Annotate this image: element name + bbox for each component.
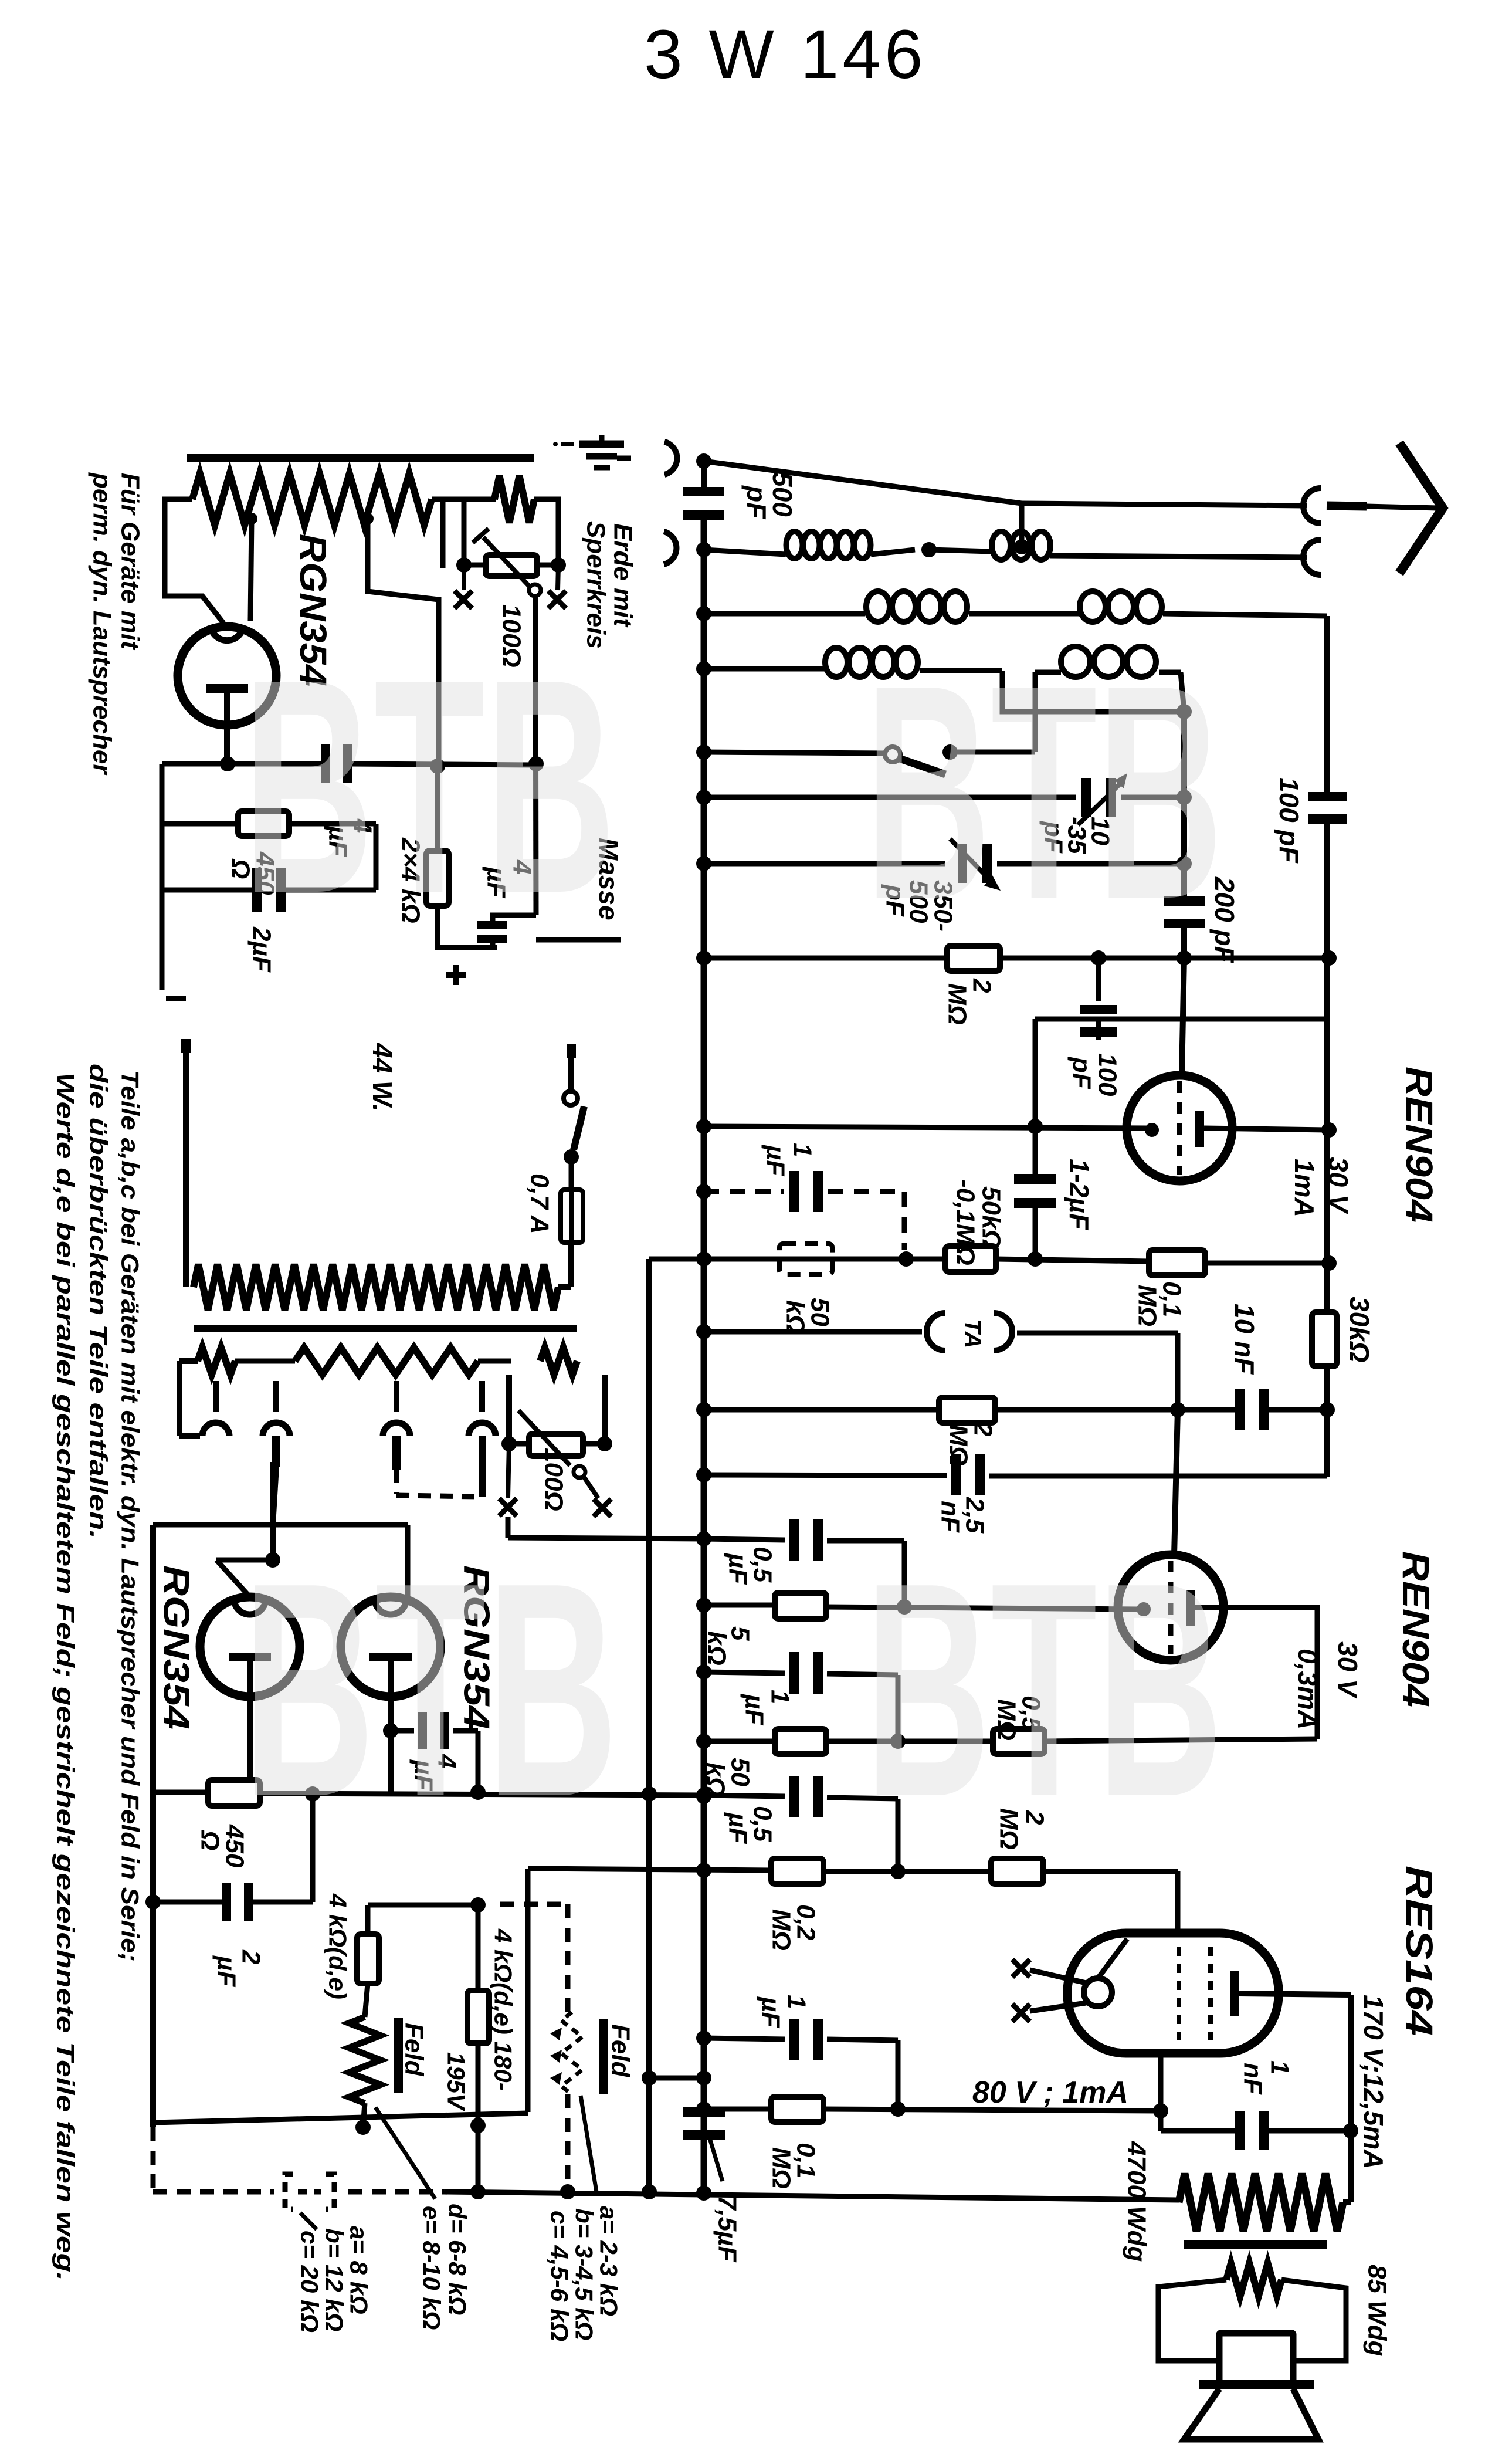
label 500pF (741, 472, 798, 520)
svg-text:1: 1 (788, 1143, 817, 1157)
tube V3 RGN354 (200, 1597, 300, 1697)
wire (row1 left) (162, 756, 323, 771)
capacitor 100pF (on bus B3) (1308, 792, 1347, 824)
label 1uF (dashed) (761, 1143, 817, 1176)
node (bus/coil row 3) (696, 661, 711, 676)
svg-text:a= 8 kΩ: a= 8 kΩ (345, 2226, 373, 2314)
transformer core bar (top-left) (187, 454, 534, 462)
node (bus/coil row 2) (696, 606, 711, 621)
wire (195V branch lower) (470, 2043, 486, 2199)
trimmer capacitor 10-35pF (1078, 773, 1127, 825)
resistor 0.2MOhm (771, 1859, 823, 1884)
svg-text:b= 3-4,5 kΩ: b= 3-4,5 kΩ (571, 2208, 598, 2340)
wire (corner riser x=900) (525, 1869, 531, 2112)
capacitor 1-2uF (1014, 1126, 1056, 1259)
label 0.5uF (724, 1546, 777, 1585)
label 0.1MOhm (2) (767, 2143, 821, 2189)
label 100Ohm (heater) (540, 1448, 568, 1511)
wire bus B3 vertical (1324, 616, 1330, 1477)
transformer core bar (output) (1184, 2240, 1327, 2249)
label 50kOhm-0.1MOhm (951, 1179, 1006, 1265)
svg-text:µF: µF (212, 1955, 241, 1987)
resistor 5kOhm (775, 1593, 826, 1619)
label Feld 2 (599, 2019, 635, 2094)
wire (195V branch) (470, 1905, 486, 2133)
wire (row3 step down) (1002, 671, 1184, 712)
svg-text:REN904: REN904 (1395, 1551, 1437, 1707)
label 0.5uF (2) (724, 1806, 777, 1844)
label 200pF (1209, 876, 1240, 964)
wire (heater mid drop) (265, 1462, 280, 1568)
wire (lower antenna jack to coil L2) (1050, 556, 1307, 557)
antenna symbol arrow (1367, 443, 1443, 573)
tube V6 RES164 (1067, 1933, 1279, 2053)
node (V2 top corner) (649, 1257, 704, 1262)
svg-text:BTB: BTB (865, 1519, 1223, 1860)
label 1nF (1239, 2060, 1294, 2095)
wire (row 2) (704, 614, 1327, 616)
node (bus/B+ row) (696, 1789, 711, 1804)
node (bus/50k2 row) (696, 1734, 711, 1749)
heater tap arc 2 (263, 1381, 290, 1525)
label a b c (left) (296, 2226, 373, 2333)
svg-text:44 W.: 44 W. (367, 1043, 398, 1112)
wire (secondary right lead) (1281, 2280, 1346, 2361)
resistor 2x4kOhm (vertical) (426, 766, 449, 947)
svg-text:µF: µF (724, 1812, 752, 1844)
wire (50k row) (704, 1251, 1337, 1271)
pointer line (7.5uF) (708, 2134, 723, 2181)
pointer line (Feld1 to d,e) (375, 2107, 435, 2199)
node (bus/2M row) (696, 950, 711, 966)
capacitor 500pF (series in bus) (683, 487, 724, 520)
svg-text:kΩ: kΩ (703, 1631, 731, 1666)
wire (V2-B1 link row 3542) (642, 2070, 711, 2086)
jack arc (antenna lower) (1303, 540, 1321, 575)
wire dashed (Feld2 branch) (500, 1904, 575, 2199)
label 2MOhm (3) (995, 1808, 1049, 1850)
capacitor 0.5uF (789, 1519, 823, 1561)
node (bus/2M2 row) (696, 1402, 711, 1417)
svg-text:30kΩ: 30kΩ (1344, 1297, 1375, 1363)
label Werte d e (line3) (52, 1072, 80, 2281)
wire (row1 right) (351, 759, 536, 774)
wire (0.5uF row) (704, 1539, 904, 1605)
wire (RGN left rail) (150, 1525, 156, 2127)
node (bus/TA row) (696, 1324, 711, 1339)
wire (B+ row 3055) (153, 1785, 711, 1803)
label 5kOhm (703, 1626, 755, 1666)
label 100Ohm (top) (497, 604, 526, 668)
svg-text:1: 1 (1266, 2060, 1294, 2074)
svg-text:4 kΩ(d,e): 4 kΩ(d,e) (324, 1893, 352, 1999)
wire (Masse row) (536, 937, 621, 943)
wire (pot right drop) (534, 499, 558, 565)
wire (row1 to coil L2) (929, 550, 991, 551)
svg-text:Feld: Feld (606, 2024, 635, 2078)
label 4kOhm(d,e) 180- (490, 1928, 517, 2091)
jack arc (lower left, Sperrkreis) (664, 532, 676, 564)
label 2uF (top) (247, 926, 276, 973)
mains lead (left) (181, 1039, 191, 1287)
svg-text:1-2µF: 1-2µF (1064, 1159, 1094, 1231)
label 1-2uF (1064, 1159, 1094, 1231)
wire (4k branch top) (368, 1897, 486, 1934)
node (row3 junction) (1177, 704, 1192, 719)
tube V1 REN904 (1127, 1075, 1232, 1181)
wire (row3 2uF) (162, 888, 376, 893)
label 1uF (3) (757, 1995, 811, 2028)
wire (anode RES164) (1239, 1993, 1358, 2202)
switch S1 (wave band) (885, 672, 1061, 774)
transformer core bar (mains) (194, 1325, 577, 1332)
label 30V 1mA (V1) (1289, 1157, 1354, 1217)
wire dashed (bottom row left) (153, 2127, 444, 2192)
svg-text:µF: µF (724, 1552, 752, 1585)
svg-text:1: 1 (766, 1690, 795, 1704)
label 0.7A (525, 1173, 554, 1234)
node (bus/trimmer1 row) (696, 790, 711, 805)
wire (V4 cathode cap row) (391, 1731, 478, 1792)
capacitor 1uF (2) (789, 1652, 823, 1694)
node (bus/dashed row) (696, 1184, 711, 1199)
wire (Masse drop x=914) (528, 596, 544, 915)
resistor 0.1MOhm (2) (771, 2097, 823, 2122)
terminal X (pot top right) (548, 565, 566, 608)
svg-text:85 Wdg: 85 Wdg (1363, 2265, 1392, 2357)
wire (2.5n row) (704, 1475, 1327, 1476)
resistor 450Ohm (RGN) (208, 1780, 260, 1806)
svg-text:e= 8-10 kΩ: e= 8-10 kΩ (418, 2206, 446, 2330)
svg-text:µF: µF (757, 1996, 785, 2028)
svg-text:Für Geräte mit: Für Geräte mit (116, 473, 145, 651)
svg-text:TA: TA (960, 1319, 985, 1348)
terminal X (pot top left) (455, 565, 472, 608)
svg-text:4700 Wdg: 4700 Wdg (1123, 2141, 1151, 2262)
node (coil row 1 junction) (921, 542, 937, 557)
node (bus/coil row 1) (696, 542, 711, 557)
resistor Feld (zigzag) (349, 1984, 381, 2135)
label 44W (367, 1043, 398, 1112)
winding (output secondary) (1226, 2263, 1281, 2296)
svg-text:MΩ: MΩ (767, 2147, 796, 2189)
node (bus/5k row) (696, 1597, 711, 1613)
svg-text:MΩ: MΩ (767, 1909, 796, 1951)
capacitor 200pF (series in grid bus) (1164, 896, 1205, 928)
label Erde mit Sperrkreis (582, 521, 638, 649)
node (bus/2.5n row) (696, 1467, 711, 1483)
terminal minus (166, 996, 186, 1001)
svg-text:170 V;12,5mA: 170 V;12,5mA (1358, 1995, 1389, 2169)
wire (0.5uF row right of B1) (704, 1795, 898, 1869)
label 2MOhm (2) (944, 1421, 998, 1466)
label RGN354 (V3) (156, 1565, 196, 1729)
svg-text:RGN354: RGN354 (156, 1565, 196, 1729)
trimmer capacitor 350-500pF (950, 839, 1001, 891)
node (bus/switch row) (696, 744, 711, 760)
resistor 2MOhm (grid leak 1) (947, 946, 1000, 971)
wire V2 vertical (left feed) (646, 1259, 652, 2192)
label REN904 (V1) (1398, 1067, 1440, 1223)
label 450Ohm (RGN) (196, 1824, 249, 1868)
label 85 Wdg (1363, 2265, 1392, 2357)
wire bus B1 vertical (701, 461, 707, 2192)
label 50kOhm (dashed) (781, 1298, 835, 1335)
coil L3 (866, 591, 967, 622)
coil L4 (1080, 591, 1162, 622)
fuse 0.7A (561, 1190, 583, 1243)
tube V3 filament (229, 1653, 271, 1793)
resistor 4kOhm (d,e) 1 (357, 1934, 379, 1984)
heater tap arc 4 (469, 1381, 496, 1497)
label 10nF (1229, 1304, 1260, 1375)
svg-text:30 V: 30 V (1333, 1641, 1363, 1699)
wire (secondary left elbow) (179, 1361, 200, 1436)
label REN904 (V2) (1395, 1551, 1437, 1707)
svg-text:Ω: Ω (196, 1830, 225, 1850)
wire (pot left drop) (432, 499, 496, 568)
svg-text:-0,1MΩ: -0,1MΩ (951, 1179, 980, 1265)
label 0.2MOhm (767, 1904, 821, 1951)
svg-text:10 nF: 10 nF (1229, 1304, 1260, 1375)
label 170V 12.5mA (1358, 1995, 1389, 2169)
wire (anode V1 to B3) (1204, 1122, 1337, 1138)
wire (primary right riser) (558, 1243, 571, 1287)
wire (plate feedback row 1735) (1035, 1019, 1327, 1126)
label RGN354 (V5) (292, 534, 334, 686)
svg-text:a= 2-3 kΩ: a= 2-3 kΩ (595, 2206, 623, 2316)
tube V5 filament (206, 684, 248, 764)
resistor 50kOhm (dashed bridged) (779, 1244, 832, 1274)
capacitor 4uF (bottom, polarized) (477, 915, 536, 947)
label 1uF (2) (740, 1690, 795, 1725)
switch S2 (mains) (564, 1044, 584, 1190)
winding (pot section) (494, 476, 534, 523)
terminal plus (446, 965, 466, 985)
winding (output primary) (1179, 2174, 1351, 2231)
connector TA (927, 1313, 1012, 1351)
svg-text:7,5µF: 7,5µF (713, 2195, 742, 2263)
svg-text:1: 1 (782, 1995, 811, 2009)
svg-text:100: 100 (1093, 1053, 1122, 1096)
potentiometer 100Ohm (top) (456, 529, 566, 596)
svg-text:Erde mit: Erde mit (609, 523, 638, 628)
ground symbol (Erde) (553, 435, 631, 468)
node (bus/1uF2 row) (696, 1664, 711, 1680)
wire (2M2 row) (704, 1402, 1335, 1417)
wire (left drop to tube) (165, 499, 223, 623)
label 2x4kOhm (396, 837, 425, 923)
label 10-35pF (1039, 817, 1115, 854)
capacitor 4uF (V4) (418, 1712, 449, 1749)
label 2MOhm (943, 978, 996, 1025)
label d=6-8k e=8-10k (418, 2204, 472, 2330)
coil L6 (1061, 647, 1184, 712)
resistor 2MOhm (3) (991, 1859, 1043, 1884)
wire (5k row) (704, 1599, 1138, 1615)
label 100pF (grid) (1067, 1053, 1122, 1096)
label 0.1MOhm (1133, 1281, 1186, 1326)
wire (row to tube V3 top) (216, 1560, 273, 1597)
resistor 450Ohm (top section) (238, 811, 289, 836)
wire (grid lead into tube V1) (1182, 958, 1184, 1075)
svg-text:1mA: 1mA (1289, 1159, 1320, 1217)
svg-text:3 W 146: 3 W 146 (644, 16, 926, 93)
antenna lead stub (1327, 506, 1367, 506)
svg-text:80 V ; 1mA: 80 V ; 1mA (972, 2076, 1128, 2110)
svg-text:195V: 195V (443, 2052, 470, 2111)
label die ueberbrueckten (line2) (85, 1064, 113, 1539)
label 7.5uF (713, 2195, 742, 2263)
resistor 50kOhm-0.1MOhm (945, 1246, 996, 1272)
wire (row2 450) (162, 824, 376, 890)
terminal X (filament 2) (1012, 2003, 1086, 2022)
svg-text:µF: µF (740, 1693, 769, 1725)
terminal X (heater pot left) (499, 1444, 517, 1516)
wire (TA row right) (1017, 1333, 1178, 1410)
winding (secondary left) (198, 1348, 235, 1375)
capacitor 100pF (grid cap) (1080, 958, 1117, 1050)
resistor 0.5MOhm (993, 1729, 1045, 1754)
svg-text:BTB: BTB (243, 616, 616, 957)
tube V4 filament (369, 1653, 412, 1793)
svg-text:BTB: BTB (243, 1519, 618, 1860)
capacitor 2uF (2) (222, 1883, 253, 1921)
heater tap arc 3 (383, 1381, 410, 1470)
label 0.5MOhm (992, 1695, 1046, 1741)
label Feld 1 (394, 2018, 429, 2093)
wire (TA row left) (704, 1329, 922, 1335)
svg-text:pF: pF (741, 485, 772, 520)
wire (tap to row1) (362, 513, 439, 763)
coil L5 (825, 648, 918, 677)
terminal X (filament 1) (1012, 1959, 1086, 1983)
capacitor 10nF (series) (1235, 1389, 1269, 1430)
svg-text:perm. dyn. Lautsprecher: perm. dyn. Lautsprecher (88, 472, 117, 776)
capacitor 0.5uF (2) (789, 1776, 823, 1817)
label 4uF (V4) (409, 1754, 462, 1791)
wire (1uF row 2) (704, 1672, 898, 1738)
wire dashed (tap3 to tap4) (396, 1470, 479, 1497)
wire (heater feed to tube V5) (246, 513, 257, 621)
terminal X (heater pot right) (584, 1477, 611, 1517)
winding (secondary middle) (295, 1348, 478, 1375)
speaker (1184, 2333, 1318, 2439)
capacitor 2.5nF (951, 1454, 985, 1495)
label 2.5nF (936, 1497, 989, 1534)
jack arc (antenna upper) (1303, 488, 1321, 523)
wire (RGN top row) (153, 1525, 408, 1597)
wire dashed (1uF row) (704, 1192, 904, 1250)
watermark BTB overlay (243, 616, 1223, 1860)
pointer line (dashed cap to a,b,c) (300, 2213, 317, 2229)
label RGN354 (V4) (456, 1565, 497, 1729)
label 350-500pF (881, 880, 958, 932)
wire (grid lead V2 tube) (1174, 1410, 1178, 1555)
tube V4 RGN354 (341, 1597, 440, 1697)
wire (row 2621 to B1) (508, 1517, 704, 1539)
svg-text:REN904: REN904 (1398, 1067, 1440, 1223)
node (bus/cathode row V1) (696, 1119, 711, 1134)
wire (50k2 row) (704, 1734, 1317, 1749)
tube V5 RGN354 (perm.dyn.) (178, 627, 276, 725)
svg-text:Feld: Feld (400, 2023, 429, 2077)
wire (cathode RES164) (1158, 2052, 1164, 2131)
wire (row 3610) (153, 2113, 528, 2123)
label RES164 (1398, 1866, 1440, 2036)
svg-text:d= 6-8 kΩ: d= 6-8 kΩ (444, 2204, 472, 2315)
svg-text:pF: pF (1067, 1057, 1096, 1089)
label a b c (right) (546, 2206, 623, 2341)
label Masse (594, 838, 624, 920)
wire (secondary links) (179, 1361, 511, 1408)
label 30V 0.3mA (1293, 1641, 1363, 1729)
label 4uF (bottom) (482, 859, 537, 898)
potentiometer 100Ohm (heater) (518, 1410, 585, 1478)
wire (1nF row) (1161, 2128, 1351, 2134)
wire (bottom row solid) (444, 2184, 1179, 2201)
svg-text:die überbrückten Teile entfall: die überbrückten Teile entfallen. (85, 1064, 113, 1539)
wire (grid bus x=2019) (1181, 712, 1187, 958)
wire (trimmer row 350-500pF) (704, 856, 1192, 871)
wire (corner down to coil row) (1014, 503, 1029, 554)
coil L2 (992, 532, 1050, 560)
winding drops (100Ohm pot heater) (501, 1375, 612, 1451)
label 80V 1mA (972, 2076, 1128, 2110)
node (bus/50k row) (696, 1251, 711, 1267)
label Teile a b c (line1) (117, 1070, 144, 1962)
label 2uF (2) (212, 1949, 266, 1987)
label 450Ohm (top) (226, 851, 280, 895)
label 4uF (row1) (324, 818, 377, 857)
svg-text:0,3mA: 0,3mA (1293, 1649, 1323, 1729)
wire (2M row) (704, 950, 1337, 966)
node (bus/0.5uF row) (696, 1531, 711, 1546)
resistor 0.1MOhm (row) (1149, 1250, 1205, 1275)
svg-text:50kΩ: 50kΩ (977, 1186, 1006, 1250)
wire (1uF3 row) (696, 2030, 898, 2107)
svg-text:BTB: BTB (865, 622, 1223, 963)
svg-text:MΩ: MΩ (1133, 1285, 1162, 1326)
wire (row 3) (704, 669, 1002, 671)
wire (trimmer row 10-35pF) (704, 790, 1192, 805)
svg-text:RES164: RES164 (1398, 1866, 1440, 2036)
label 195V (443, 2052, 470, 2111)
jack arc (Erde input) (664, 442, 677, 475)
svg-text:c= 20 kΩ: c= 20 kΩ (296, 2231, 324, 2333)
wire (switch row) (704, 752, 884, 753)
svg-text:0,7 A: 0,7 A (525, 1173, 554, 1234)
label 50kOhm (2) (701, 1758, 755, 1797)
resistor 30kOhm (on B3) (1312, 1297, 1375, 1366)
wire (left rail) (160, 764, 165, 990)
node (bus/trimmer2 row) (696, 856, 711, 871)
wire (0.1M row 3595) (696, 2101, 1168, 2118)
label Fuer Geraete mit perm. dyn. Lautsprecher (88, 472, 145, 776)
wire (cathode row V1) (704, 1119, 1147, 1134)
pointer line (Feld2 to a,b,c) (581, 2096, 597, 2195)
winding (secondary right) (540, 1348, 577, 1375)
node A (antenna bus top) (696, 453, 711, 469)
label 100pF (B3) (1274, 777, 1304, 864)
svg-text:Werte d,e bei parallel geschal: Werte d,e bei parallel geschaltetem Feld… (52, 1072, 80, 2281)
wire (anode V2 loop) (1195, 1607, 1317, 1739)
title text 3 W 146 (644, 16, 926, 93)
resistor 4kOhm (d,e) 2 (467, 1991, 489, 2043)
wire (top antenna run, slanted) (704, 461, 1022, 503)
svg-text:100Ω: 100Ω (540, 1448, 568, 1511)
heater tap arc 1 (202, 1381, 229, 1436)
